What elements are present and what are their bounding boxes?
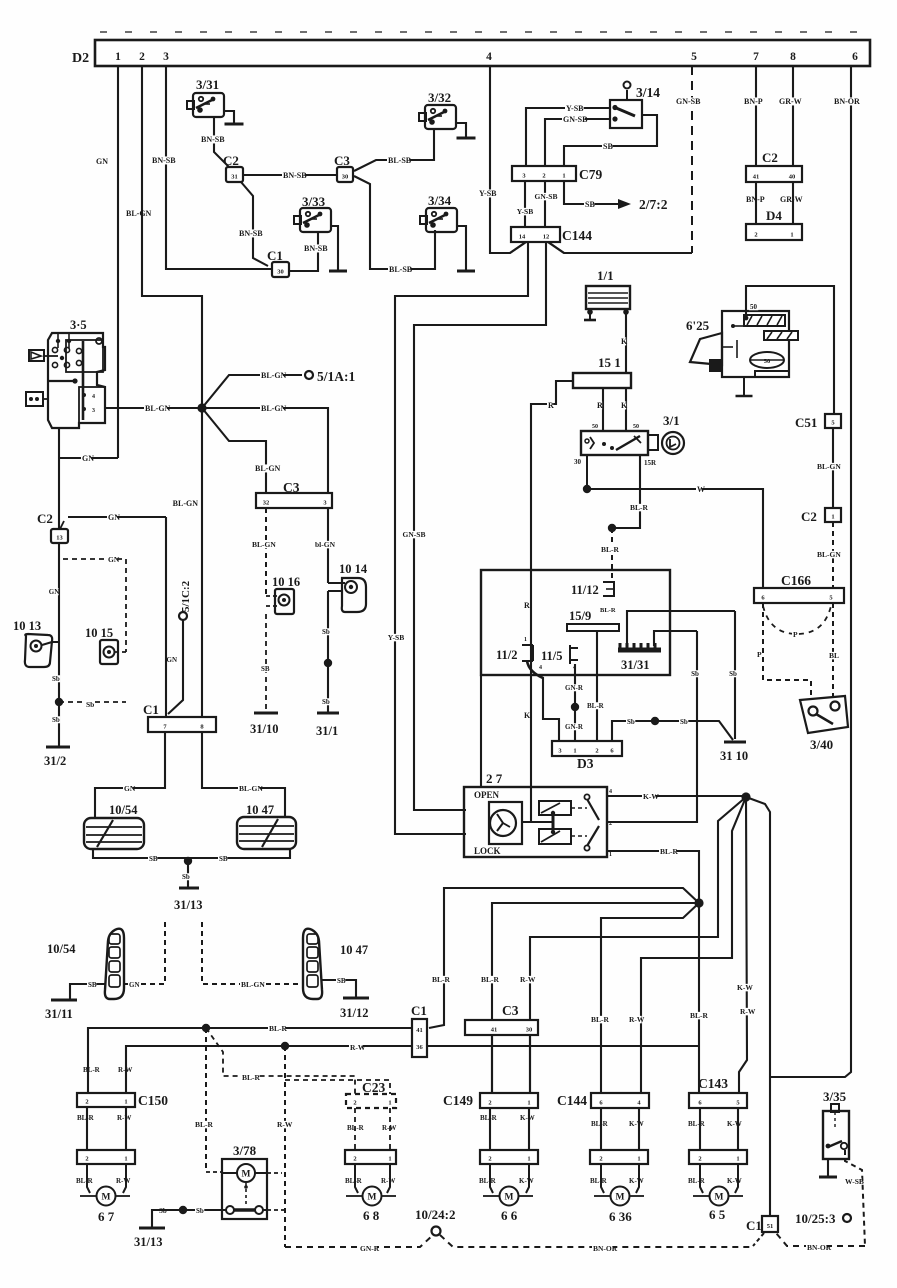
wire SB 10/47 to ground 31/12	[322, 980, 356, 997]
ground 31/13 lower	[139, 1227, 165, 1230]
svg-text:2: 2	[754, 232, 757, 239]
door connector strip front left	[77, 1150, 135, 1164]
ground of 3/31	[224, 111, 234, 123]
window motor 6/8	[355, 1164, 358, 1193]
wire BL-R branch to C3 rear	[492, 903, 699, 1094]
svg-text:7: 7	[753, 51, 759, 63]
wire relay blade to D3 pin 3	[543, 677, 559, 741]
wire BL-R C143 down	[699, 1108, 701, 1150]
svg-text:3/35: 3/35	[823, 1089, 847, 1104]
svg-text:1: 1	[115, 51, 121, 63]
door connector strip rear right	[590, 1150, 648, 1164]
svg-text:Sb: Sb	[627, 718, 635, 726]
wire BN-SB 3/33 to C1	[289, 232, 318, 271]
svg-text:R: R	[524, 601, 530, 610]
ground comb 31/31	[618, 648, 661, 653]
svg-text:R: R	[548, 401, 554, 410]
svg-text:3/33: 3/33	[302, 194, 326, 209]
svg-text:GN: GN	[82, 454, 94, 463]
svg-text:50: 50	[750, 303, 758, 311]
svg-text:C143: C143	[698, 1076, 728, 1091]
wire BL-R branch to C144 rear	[601, 903, 699, 1094]
wire BN-SB C2 to C1 diagonal	[241, 182, 268, 266]
svg-text:SB: SB	[261, 665, 270, 673]
svg-text:OPEN: OPEN	[474, 790, 500, 800]
svg-text:P: P	[793, 630, 798, 639]
wire comb second lead	[654, 631, 697, 646]
wire GN-SB C79 to C144	[544, 181, 546, 227]
svg-text:41: 41	[416, 1027, 423, 1034]
svg-text:2: 2	[609, 821, 612, 827]
svg-text:GN-R: GN-R	[565, 684, 584, 692]
svg-text:1: 1	[831, 514, 834, 521]
2/7 center contact	[522, 821, 553, 823]
svg-text:51: 51	[767, 1223, 774, 1230]
svg-text:5/1C:2: 5/1C:2	[180, 580, 192, 612]
wire K-W C143 down	[737, 1108, 739, 1150]
svg-text:BL-GN: BL-GN	[145, 404, 171, 413]
warning buzzer contact of 3/5	[29, 350, 44, 361]
svg-text:2/7:2: 2/7:2	[639, 197, 668, 212]
ground of 3/33	[331, 226, 338, 270]
svg-text:BL-GN: BL-GN	[261, 371, 287, 380]
svg-text:R-W: R-W	[116, 1177, 130, 1185]
svg-text:BL-GN: BL-GN	[241, 980, 265, 989]
pedal switch 3/40	[800, 696, 848, 733]
wire comb to 2/7 center	[627, 611, 735, 646]
starter 6/25 ground	[743, 377, 745, 395]
svg-text:5: 5	[691, 51, 697, 63]
wire Sb 10/14 to ground 31/1	[327, 591, 329, 712]
svg-text:Sb: Sb	[322, 698, 330, 706]
junction dot SB	[184, 857, 192, 865]
wire Y-SB C79 to C144	[524, 181, 526, 227]
dashed link C1 to bottom bus	[753, 1233, 764, 1246]
svg-text:GN: GN	[167, 656, 178, 664]
svg-text:3/31: 3/31	[196, 77, 219, 92]
svg-text:W: W	[697, 485, 705, 494]
wire 3/35 to ground	[827, 1159, 829, 1176]
wire 50 feed to starter	[746, 286, 834, 414]
svg-text:SB: SB	[337, 977, 346, 985]
wire K-W 2/7 to junction	[607, 795, 746, 797]
svg-text:R: R	[597, 401, 603, 410]
svg-text:C1: C1	[411, 1003, 427, 1018]
svg-text:BN-SB: BN-SB	[239, 229, 263, 238]
svg-text:Sb: Sb	[52, 716, 60, 724]
svg-text:GN-SB: GN-SB	[403, 530, 426, 539]
svg-text:BL-R: BL-R	[590, 1177, 608, 1185]
svg-text:GN: GN	[124, 784, 136, 793]
svg-text:SB: SB	[219, 855, 228, 863]
svg-text:4: 4	[92, 394, 95, 400]
svg-text:1: 1	[124, 1099, 127, 1106]
connector C150	[77, 1093, 135, 1107]
dashed R-W C23 down	[389, 1108, 391, 1150]
svg-text:M: M	[242, 1170, 251, 1180]
svg-text:BL-SB: BL-SB	[388, 156, 412, 165]
svg-text:10 13: 10 13	[13, 619, 41, 633]
svg-text:BL: BL	[829, 651, 839, 660]
svg-text:GN-R: GN-R	[360, 1244, 380, 1253]
door connector strip front right	[480, 1150, 538, 1164]
wire Sb to ground 31/10 right	[655, 721, 733, 740]
wire BN-P C2 to D4	[755, 182, 757, 224]
svg-text:10/54: 10/54	[47, 942, 76, 956]
svg-text:Y-SB: Y-SB	[566, 104, 584, 113]
svg-text:1: 1	[388, 1100, 391, 1107]
svg-text:1/1: 1/1	[597, 268, 614, 283]
wire K 15/1 to ignition	[625, 388, 627, 431]
svg-text:3/14: 3/14	[636, 85, 660, 100]
wire GN C2 to door connector C1	[68, 516, 166, 518]
connector C144	[511, 227, 560, 242]
svg-text:3: 3	[163, 51, 169, 63]
wire BL-R C3 to C149	[491, 1035, 493, 1094]
junction dot Sb D3	[651, 717, 659, 725]
junction dot on 31/1 lead	[324, 659, 332, 667]
svg-text:M: M	[505, 1193, 514, 1203]
svg-text:30: 30	[342, 174, 349, 181]
svg-text:BN-P: BN-P	[746, 195, 765, 204]
svg-text:R-W: R-W	[382, 1124, 396, 1132]
starter 6/25 armature oval	[750, 352, 784, 368]
junction node BL-GN	[197, 403, 206, 412]
svg-text:Sb: Sb	[680, 718, 688, 726]
svg-text:BL-R: BL-R	[76, 1177, 94, 1185]
starter 6/25 lower bar	[755, 371, 789, 377]
wire BL-GN from bus pin 2	[142, 66, 202, 408]
svg-text:BL-R: BL-R	[660, 847, 679, 856]
ground of 3/32	[456, 123, 466, 137]
svg-text:bl-GN: bl-GN	[315, 540, 336, 549]
wire Sb D3 to ground	[612, 721, 655, 741]
wire BL-GN C1 to 10/47 motor	[202, 732, 285, 817]
svg-text:1: 1	[524, 637, 527, 643]
svg-text:C144: C144	[562, 228, 592, 243]
svg-text:6 6: 6 6	[501, 1208, 518, 1223]
svg-text:R-W: R-W	[277, 1120, 293, 1129]
svg-text:BL-R: BL-R	[587, 702, 605, 710]
svg-text:1: 1	[527, 1156, 530, 1163]
svg-text:15/9: 15/9	[569, 609, 591, 623]
wire Sb 10/13 down	[52, 641, 59, 643]
2/7 relay coil lower	[539, 829, 571, 844]
svg-text:GN: GN	[129, 981, 140, 989]
junction dot R-W	[281, 1042, 289, 1050]
dashed BN-OR bottom right	[776, 1233, 865, 1246]
ignition key symbol 3/1	[648, 435, 658, 450]
svg-text:SB: SB	[585, 200, 595, 209]
wire BL-GN C3 to 10/14	[327, 508, 329, 583]
junction dot Sb	[55, 698, 63, 706]
wire BL-GN junction to C3 pin 32	[202, 408, 266, 493]
svg-text:11/2: 11/2	[496, 648, 518, 662]
svg-text:C1: C1	[267, 248, 283, 263]
svg-text:1: 1	[736, 1156, 739, 1163]
svg-text:C149: C149	[443, 1093, 473, 1108]
dashed BL-R C23 down	[354, 1108, 356, 1150]
connector C79	[512, 166, 576, 181]
svg-text:12: 12	[543, 234, 550, 241]
svg-text:1: 1	[124, 1156, 127, 1163]
svg-text:3/34: 3/34	[428, 193, 452, 208]
wire Y-SB C79 to 3/14	[526, 108, 610, 180]
svg-text:Sb: Sb	[52, 675, 60, 683]
ground of 3/34	[457, 226, 466, 270]
wire BL-GN junction down to door connector C1	[201, 408, 203, 717]
dashed wire BL-GN to 10/47	[202, 922, 303, 984]
svg-text:K-W: K-W	[737, 983, 753, 992]
wire Sb comb lead 2 to 2/7 centre pin	[607, 631, 697, 822]
wire GN-R 11/5 to D3	[574, 664, 576, 741]
svg-text:2 7: 2 7	[486, 771, 503, 786]
svg-text:2: 2	[85, 1156, 88, 1163]
dashed GN to 10/15	[63, 559, 126, 652]
svg-text:3/1: 3/1	[663, 413, 680, 428]
wire BL-R to relay pin 11/12	[611, 528, 613, 581]
svg-text:R-W: R-W	[629, 1015, 645, 1024]
ground 31/2	[46, 746, 70, 749]
svg-text:BL-R: BL-R	[195, 1120, 214, 1129]
svg-text:1: 1	[609, 852, 612, 858]
svg-text:R-W: R-W	[117, 1114, 131, 1122]
svg-text:GN-SB: GN-SB	[563, 115, 588, 124]
connector D3	[552, 741, 622, 756]
svg-text:C51: C51	[795, 415, 817, 430]
ground 31/12	[343, 997, 369, 1000]
svg-text:31/12: 31/12	[340, 1006, 368, 1020]
svg-text:LOCK: LOCK	[474, 846, 501, 856]
ground 31/10 right	[724, 741, 746, 744]
starter 6/25 brush block	[710, 360, 722, 371]
central locking relay box	[481, 570, 670, 675]
wire BL-R ignition 15R down	[612, 455, 640, 528]
2/7 relay coil upper	[539, 801, 571, 815]
key-in contact of 3/5	[26, 392, 43, 406]
wire BL-R 2/7 lower pin	[607, 851, 699, 903]
wire SB 10/54 to ground 31/11	[70, 984, 105, 999]
svg-text:31 10: 31 10	[720, 749, 748, 763]
wire GN C1 to 10/54 motor	[95, 732, 165, 818]
door connector strip rear left	[345, 1150, 396, 1164]
svg-text:BN-P: BN-P	[744, 97, 763, 106]
svg-text:2: 2	[599, 1156, 602, 1163]
window motor 6/6	[490, 1164, 493, 1193]
svg-text:31: 31	[231, 174, 238, 181]
svg-text:BL-R: BL-R	[688, 1120, 706, 1128]
svg-text:GN-SB: GN-SB	[535, 192, 558, 201]
svg-text:2: 2	[85, 1099, 88, 1106]
svg-text:BL-R: BL-R	[432, 975, 451, 984]
svg-text:C2: C2	[801, 509, 817, 524]
svg-text:BL-R: BL-R	[600, 607, 616, 614]
wire BL-GN C2 to C166 dashed	[832, 522, 834, 588]
svg-text:41: 41	[753, 174, 760, 181]
svg-text:M: M	[368, 1193, 377, 1203]
svg-text:30: 30	[526, 1027, 533, 1034]
dashed R-W to 3/78 and rear bus	[284, 1046, 286, 1247]
svg-text:P: P	[757, 650, 762, 659]
svg-text:R-W: R-W	[381, 1177, 395, 1185]
wire GR-W from bus pin 8	[792, 66, 794, 166]
svg-text:SB: SB	[88, 981, 97, 989]
svg-text:1: 1	[790, 232, 793, 239]
svg-text:SB: SB	[603, 142, 613, 151]
wire GN 5/1C:2 to C1	[168, 620, 183, 714]
wire Y-SB from bus pin 4	[490, 66, 526, 253]
svg-text:BL-SB: BL-SB	[389, 265, 413, 274]
svg-text:3/40: 3/40	[810, 737, 833, 752]
dashed BL-R to 3/78	[205, 1028, 207, 1172]
wire SB C79 to 2/7:2 arrow	[564, 181, 618, 204]
svg-text:31/2: 31/2	[44, 754, 66, 768]
svg-text:K: K	[621, 401, 628, 410]
wire BL-SB 3/32 to C3	[354, 129, 434, 171]
svg-text:6 7: 6 7	[98, 1209, 115, 1224]
door connector strip tailgate	[689, 1150, 747, 1164]
svg-text:GN-R: GN-R	[565, 723, 584, 731]
svg-text:2: 2	[542, 173, 545, 180]
wire BN-SB 3/31 to C2	[214, 117, 229, 167]
svg-text:GN: GN	[108, 513, 120, 522]
svg-text:C2: C2	[37, 511, 53, 526]
wire K-W C149 down	[528, 1108, 530, 1150]
svg-text:4: 4	[486, 51, 492, 63]
wire R 15/1 to ignition	[602, 388, 604, 431]
svg-text:13: 13	[56, 535, 63, 542]
starter 6/25 solenoid 50 coil	[744, 315, 785, 326]
svg-text:Sb: Sb	[196, 1207, 204, 1215]
svg-text:1: 1	[637, 1156, 640, 1163]
svg-text:3·5: 3·5	[70, 318, 87, 332]
svg-text:C2: C2	[762, 150, 778, 165]
svg-text:50: 50	[764, 358, 771, 365]
svg-text:BN-SB: BN-SB	[201, 135, 225, 144]
wire GN-SB C144 to 2/7	[414, 242, 546, 810]
svg-text:2: 2	[595, 748, 598, 755]
wire BL-R C150 to door strip	[86, 1107, 88, 1150]
wire R-W branch to C144 pin 4	[641, 797, 746, 1094]
wire GN 3/5 to C2	[58, 428, 60, 529]
svg-text:15R: 15R	[644, 459, 657, 467]
svg-text:11/5: 11/5	[541, 649, 563, 663]
svg-text:30: 30	[277, 269, 284, 276]
svg-text:BN-SB: BN-SB	[304, 244, 328, 253]
svg-text:BL-R: BL-R	[77, 1114, 95, 1122]
svg-text:30: 30	[574, 458, 582, 466]
svg-text:R-W: R-W	[520, 975, 536, 984]
svg-text:10 14: 10 14	[339, 562, 368, 576]
wire BN-OR from bus pin 6 down right edge	[770, 66, 851, 1077]
wire R-W C150 to door strip	[125, 1107, 127, 1150]
ground 31/11	[51, 999, 77, 1002]
wire BL-R bus to driver door	[88, 1028, 412, 1065]
svg-text:BL-R: BL-R	[242, 1073, 261, 1082]
svg-text:2: 2	[488, 1100, 491, 1107]
svg-text:3/32: 3/32	[428, 90, 451, 105]
svg-text:10 16: 10 16	[272, 575, 300, 589]
2/7 dashed coil links	[571, 807, 587, 809]
svg-text:41: 41	[491, 1027, 498, 1034]
dashed R-W branch to C23	[285, 1080, 390, 1094]
connector C144 skirt left	[490, 242, 526, 253]
svg-text:10/25:3: 10/25:3	[795, 1211, 836, 1226]
svg-text:K: K	[621, 337, 628, 346]
svg-text:BL-R: BL-R	[690, 1011, 709, 1020]
2/7 contact arms	[584, 794, 589, 799]
window motor 6/36	[601, 1164, 604, 1193]
svg-text:K-W: K-W	[643, 792, 659, 801]
wire GN-SB C79 to 3/14	[545, 119, 610, 180]
svg-text:BN-SB: BN-SB	[283, 171, 307, 180]
svg-text:10/24:2: 10/24:2	[415, 1207, 455, 1222]
svg-text:R-W: R-W	[350, 1043, 366, 1052]
wire K-W C144 down	[638, 1108, 640, 1150]
wire R-W down to C143 pin 5	[739, 797, 747, 1094]
svg-text:2: 2	[488, 1156, 491, 1163]
svg-text:BL-GN: BL-GN	[173, 499, 199, 508]
wire BL-GN junction to C3 pin 3	[202, 408, 328, 493]
wire BL-R branch to C1 rear	[429, 888, 699, 1028]
svg-text:31/13: 31/13	[134, 1235, 162, 1249]
svg-text:C144: C144	[557, 1093, 587, 1108]
svg-text:BL-GN: BL-GN	[239, 784, 263, 793]
ground 31/13	[179, 887, 199, 890]
svg-text:4: 4	[539, 665, 542, 671]
svg-text:50: 50	[633, 424, 639, 430]
svg-text:2: 2	[353, 1100, 356, 1107]
svg-text:BN-OR: BN-OR	[834, 97, 860, 106]
wire BL-R C144 down	[600, 1108, 602, 1150]
svg-text:C79: C79	[579, 167, 602, 182]
svg-text:D2: D2	[72, 51, 89, 66]
wire BL dashed C166 to 3/40	[832, 603, 834, 700]
svg-text:M: M	[616, 1193, 625, 1203]
svg-text:C150: C150	[138, 1093, 168, 1108]
svg-text:BN-OR: BN-OR	[807, 1243, 832, 1252]
svg-text:BL-R: BL-R	[630, 503, 649, 512]
wire R-W branch to C3 pin 30	[530, 797, 746, 1094]
svg-text:BL-GN: BL-GN	[817, 462, 841, 471]
svg-text:C1: C1	[746, 1218, 762, 1233]
connector C144 skirt right	[548, 242, 564, 253]
wire BN-SB C2 to C3	[243, 174, 337, 176]
battery left terminal stub	[589, 312, 591, 319]
svg-text:BN-SB: BN-SB	[152, 156, 176, 165]
svg-text:40: 40	[789, 174, 796, 181]
wire Sb to ground 31/2	[58, 702, 60, 746]
wire P dashed C166 to 3/40	[763, 603, 811, 700]
svg-text:10 47: 10 47	[340, 943, 368, 957]
svg-text:BL-GN: BL-GN	[817, 550, 841, 559]
svg-text:Y-SB: Y-SB	[517, 207, 533, 216]
svg-text:GR-W: GR-W	[779, 97, 802, 106]
svg-text:BL-R: BL-R	[83, 1066, 101, 1074]
wire BN-SB from bus pin 3	[166, 66, 272, 269]
svg-text:2: 2	[353, 1156, 356, 1163]
svg-text:BN-OR: BN-OR	[593, 1244, 618, 1253]
wire Sb 3/78 to ground 31/13	[183, 1209, 222, 1211]
wire Sb to ground 31/13	[187, 861, 189, 887]
svg-text:31/11: 31/11	[45, 1007, 73, 1021]
wire BL-R down to C143	[698, 903, 700, 1094]
wire BL-R C149 down	[489, 1108, 491, 1150]
svg-text:5/1A:1: 5/1A:1	[317, 369, 355, 384]
svg-text:BL-GN: BL-GN	[255, 464, 281, 473]
svg-text:M: M	[102, 1193, 111, 1203]
svg-text:GR-W: GR-W	[780, 195, 803, 204]
